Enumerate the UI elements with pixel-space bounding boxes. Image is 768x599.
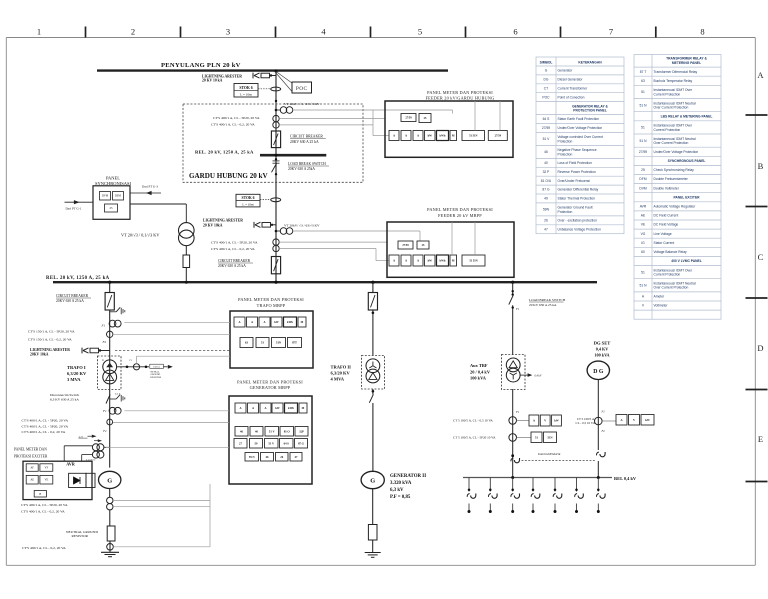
svg-text:Over Current Protection: Over Current Protection [654, 106, 689, 110]
svg-text:Over/Under Frekuensi: Over/Under Frekuensi [558, 179, 591, 183]
svg-text:VT 20kV/ √3 / 63/√3 KV: VT 20kV/ √3 / 63/√3 KV [284, 102, 320, 106]
svg-text:B: B [758, 161, 764, 171]
svg-text:A: A [417, 135, 419, 138]
svg-text:KETERANGAN: KETERANGAN [578, 61, 602, 65]
svg-text:G: G [107, 478, 112, 485]
svg-text:PROTEKSI EXCITER: PROTEKSI EXCITER [14, 454, 48, 458]
svg-text:46: 46 [544, 150, 548, 154]
svg-text:4,3 I: 4,3 I [79, 435, 84, 438]
svg-text:M: M [301, 321, 304, 324]
svg-text:TRANSFORMER RELAY &: TRANSFORMER RELAY & [666, 57, 707, 61]
svg-text:METERING PANEL: METERING PANEL [672, 61, 701, 65]
svg-text:VF: VF [45, 467, 49, 470]
svg-text:PANEL EXCITER: PANEL EXCITER [673, 195, 700, 199]
svg-text:27/59: 27/59 [495, 135, 502, 138]
svg-text:Current Protection: Current Protection [654, 128, 681, 132]
svg-text:6,3 kV: 6,3 kV [390, 488, 404, 493]
svg-text:SIMBOL: SIMBOL [540, 61, 553, 65]
svg-text:FEEDER 20 kV MBPP: FEEDER 20 kV MBPP [438, 213, 482, 218]
svg-text:3: 3 [226, 27, 230, 37]
svg-text:kW: kW [554, 419, 559, 423]
svg-text:20KV 630 A 25 kA: 20KV 630 A 25 kA [290, 140, 319, 144]
svg-text:REL. 20 kV, 1250 A, 25 kA: REL. 20 kV, 1250 A, 25 kA [46, 276, 110, 281]
svg-text:32 P: 32 P [543, 170, 551, 174]
svg-text:1: 1 [37, 27, 41, 37]
svg-text:AVR: AVR [640, 205, 647, 209]
svg-text:Unbalance Voltage Protection: Unbalance Voltage Protection [558, 227, 602, 231]
svg-text:A: A [757, 70, 764, 80]
svg-text:G: G [545, 69, 548, 73]
svg-text:InterlockElektrik: InterlockElektrik [537, 452, 561, 456]
svg-text:POC: POC [542, 95, 550, 99]
svg-text:27/59: 27/59 [542, 126, 550, 130]
svg-text:Over Current Protection: Over Current Protection [654, 141, 689, 145]
svg-text:TRAFO II: TRAFO II [331, 365, 352, 370]
svg-text:Current Protection: Current Protection [654, 273, 681, 277]
svg-text:CIRCUIT BREAKER: CIRCUIT BREAKER [290, 135, 323, 139]
svg-text:CT: CT [544, 86, 548, 90]
svg-text:6: 6 [513, 27, 517, 37]
svg-text:7: 7 [609, 27, 613, 37]
svg-text:Aux TRF: Aux TRF [470, 363, 488, 368]
svg-text:Voltage Balance Relay: Voltage Balance Relay [654, 250, 688, 254]
svg-text:AF: AF [30, 467, 34, 470]
svg-text:kW: kW [275, 407, 280, 410]
svg-text:PANEL METER DAN PROTEKSI: PANEL METER DAN PROTEKSI [237, 380, 303, 385]
svg-text:6,3/20 KV: 6,3/20 KV [331, 371, 351, 376]
svg-text:Generator: Generator [558, 69, 574, 73]
svg-text:51: 51 [641, 90, 645, 94]
svg-text:400 V LVMC PANEL: 400 V LVMC PANEL [671, 259, 701, 263]
svg-text:Current Transformer: Current Transformer [558, 86, 589, 90]
svg-text:DFM: DFM [639, 177, 646, 181]
svg-text:5: 5 [418, 27, 422, 37]
svg-text:REL. 20 kV, 1250 A, 25 kA: REL. 20 kV, 1250 A, 25 kA [195, 149, 254, 154]
svg-text:64 S: 64 S [543, 117, 551, 121]
svg-text:51 V: 51 V [543, 137, 551, 141]
svg-text:Generator Differential Relay: Generator Differential Relay [558, 188, 599, 192]
svg-text:Over - excitation protection: Over - excitation protection [558, 219, 598, 223]
svg-text:Ameter: Ameter [654, 295, 666, 299]
svg-text:20KV 630 A 25 kA: 20KV 630 A 25 kA [56, 299, 84, 303]
svg-text:59 N: 59 N [249, 455, 256, 459]
svg-text:IG: IG [641, 241, 645, 245]
svg-text:SYNCHRONOUS PANEL: SYNCHRONOUS PANEL [668, 159, 706, 163]
svg-text:20KV 10kA: 20KV 10kA [30, 352, 49, 356]
svg-text:kW: kW [428, 260, 433, 263]
svg-text:CIRCUIT BREAKER: CIRCUIT BREAKER [56, 294, 89, 298]
svg-text:6,3 T: 6,3 T [115, 392, 121, 395]
svg-text:GENERATOR MBPP: GENERATOR MBPP [250, 385, 291, 390]
svg-text:20 / 0,4 kV: 20 / 0,4 kV [470, 369, 491, 374]
svg-text:20KV 630 A 25 kA: 20KV 630 A 25 kA [218, 264, 246, 268]
svg-text:A: A [251, 321, 253, 324]
svg-text:M: M [452, 260, 455, 263]
svg-text:60: 60 [641, 250, 645, 254]
svg-text:F2: F2 [102, 429, 107, 433]
svg-text:F1: F1 [601, 409, 606, 413]
svg-text:Voltmeter: Voltmeter [654, 304, 669, 308]
svg-text:Under/Over Voltage Protection: Under/Over Voltage Protection [558, 126, 603, 130]
svg-text:Stator Thermal Protection: Stator Thermal Protection [558, 197, 596, 201]
svg-text:20KV 630 A 25kA: 20KV 630 A 25kA [288, 167, 315, 171]
svg-text:GROUND: GROUND [150, 374, 160, 376]
svg-text:20 KV 10 kA: 20 KV 10 kA [202, 79, 223, 83]
svg-text:87T: 87T [292, 341, 297, 345]
svg-text:DG: DG [544, 78, 549, 82]
svg-text:F1: F1 [102, 409, 107, 413]
svg-text:LOAD BREAK SWITCH: LOAD BREAK SWITCH [288, 162, 326, 166]
svg-text:PANEL METER DAN PROTEKSI: PANEL METER DAN PROTEKSI [427, 90, 493, 95]
svg-text:L = 10m: L = 10m [242, 202, 254, 206]
svg-text:L = 10m: L = 10m [240, 92, 252, 96]
svg-text:A: A [238, 321, 240, 324]
svg-text:DVM: DVM [639, 186, 647, 190]
svg-text:Disconnectin Switch: Disconnectin Switch [50, 393, 79, 397]
svg-text:F2: F2 [102, 340, 107, 344]
svg-text:C: C [758, 252, 764, 262]
svg-text:kW: kW [428, 135, 433, 138]
svg-text:kWh: kWh [440, 260, 446, 263]
svg-text:Protection: Protection [558, 210, 573, 214]
svg-text:20 KV 10kA: 20 KV 10kA [203, 223, 223, 227]
svg-text:B: B [39, 493, 41, 496]
svg-text:81 O/U: 81 O/U [541, 179, 552, 183]
svg-text:F2: F2 [601, 429, 606, 433]
svg-text:Point of Conection: Point of Conection [558, 95, 585, 99]
svg-text:51 N: 51 N [640, 139, 648, 143]
svg-text:Stator Current: Stator Current [654, 241, 675, 245]
svg-text:2: 2 [131, 27, 135, 37]
svg-text:DFM: DFM [115, 195, 121, 198]
svg-text:32P: 32P [299, 429, 304, 433]
svg-text:LOAD BREAK SWITCH: LOAD BREAK SWITCH [529, 298, 566, 302]
svg-text:Over Current Protection: Over Current Protection [654, 286, 689, 290]
svg-text:kWh: kWh [287, 321, 293, 324]
svg-text:NETRAL: NETRAL [150, 370, 160, 373]
svg-text:PROTECTION PANEL: PROTECTION PANEL [573, 109, 606, 113]
svg-text:AE: AE [30, 479, 34, 482]
svg-text:27/59: 27/59 [402, 244, 409, 247]
svg-text:Automatic Voltage Regulator: Automatic Voltage Regulator [654, 205, 697, 209]
svg-text:G: G [370, 477, 375, 484]
svg-text:Loss of Field Protection: Loss of Field Protection [558, 161, 593, 165]
svg-text:A: A [417, 260, 419, 263]
svg-text:A: A [405, 135, 407, 138]
svg-text:100 kVA: 100 kVA [594, 352, 609, 357]
svg-text:51 N: 51 N [640, 283, 648, 287]
svg-text:DC Field Current: DC Field Current [654, 214, 679, 218]
svg-text:20 KV 630 A 25 kA: 20 KV 630 A 25 kA [529, 303, 557, 307]
svg-text:64 S: 64 S [284, 441, 290, 445]
svg-text:Dari PT G-1: Dari PT G-1 [66, 206, 82, 210]
svg-text:47: 47 [544, 227, 548, 231]
svg-text:3 MVA: 3 MVA [67, 377, 81, 382]
svg-text:SYNCHRONISASI: SYNCHRONISASI [95, 181, 132, 186]
svg-text:PANEL METER DAN PROTEKSI: PANEL METER DAN PROTEKSI [427, 207, 493, 212]
svg-text:RESISTOR: RESISTOR [72, 534, 89, 538]
svg-text:Protection: Protection [558, 152, 573, 156]
svg-text:F1: F1 [101, 323, 106, 327]
svg-text:LIGHTNING ARESTER: LIGHTNING ARESTER [203, 219, 243, 223]
svg-text:6,3/20 KV: 6,3/20 KV [67, 371, 87, 376]
svg-text:GENERATOR II: GENERATOR II [390, 474, 426, 479]
svg-text:Under/Over Voltage Protection: Under/Over Voltage Protection [654, 150, 699, 154]
svg-text:M: M [302, 407, 305, 410]
svg-text:0,4 kV: 0,4 kV [535, 375, 542, 378]
svg-text:27/59: 27/59 [405, 117, 412, 120]
svg-text:51 V: 51 V [269, 429, 276, 433]
svg-text:DG SET: DG SET [594, 341, 611, 346]
svg-text:8: 8 [700, 27, 704, 37]
svg-text:CIRCUIT BREAKER: CIRCUIT BREAKER [218, 259, 251, 263]
svg-text:Double Frekuensimeter: Double Frekuensimeter [654, 177, 689, 181]
svg-text:A: A [264, 407, 266, 410]
svg-text:PANEL METER DAN: PANEL METER DAN [14, 448, 47, 452]
svg-text:51: 51 [641, 270, 645, 274]
svg-text:STOK 6: STOK 6 [239, 86, 252, 90]
svg-text:87 T: 87 T [640, 70, 647, 74]
svg-text:REL 0,4 kV: REL 0,4 kV [614, 476, 637, 481]
svg-text:Bucholz Temperatur Relay: Bucholz Temperatur Relay [654, 79, 693, 83]
svg-text:TRAFO I: TRAFO I [67, 365, 86, 370]
svg-text:25: 25 [641, 168, 645, 172]
svg-text:DVM: DVM [102, 195, 109, 198]
svg-text:63: 63 [641, 79, 645, 83]
svg-text:27/59: 27/59 [639, 150, 647, 154]
svg-text:51 51N: 51 51N [469, 135, 477, 138]
svg-text:GARDU HUBUNG 20 kV: GARDU HUBUNG 20 kV [189, 172, 269, 180]
svg-text:51 N: 51 N [640, 103, 648, 107]
svg-text:59N: 59N [543, 208, 550, 212]
svg-text:VG: VG [641, 232, 646, 236]
svg-text:E: E [758, 434, 763, 444]
svg-text:A: A [393, 260, 395, 263]
svg-text:RESISTOR: RESISTOR [150, 377, 161, 379]
svg-text:Stator Earth Fault Protection: Stator Earth Fault Protection [558, 117, 600, 121]
svg-text:POC: POC [296, 86, 308, 92]
svg-text:87 G: 87 G [298, 441, 305, 445]
svg-text:AVR: AVR [66, 461, 76, 466]
svg-text:3.320 kVA: 3.320 kVA [390, 481, 412, 486]
svg-text:87 G: 87 G [542, 188, 550, 192]
svg-text:49: 49 [544, 197, 548, 201]
svg-text:P.F = 0,85: P.F = 0,85 [390, 495, 411, 500]
svg-text:A: A [252, 407, 254, 410]
svg-text:A: A [405, 260, 407, 263]
svg-text:A: A [239, 407, 241, 410]
svg-text:VE: VE [44, 479, 48, 482]
svg-text:kW: kW [274, 321, 279, 324]
svg-text:A: A [263, 321, 265, 324]
svg-text:kWh: kWh [288, 407, 294, 410]
svg-text:26: 26 [544, 219, 548, 223]
svg-text:Reverse Power Protection: Reverse Power Protection [558, 170, 596, 174]
svg-text:LIGHTNING ARESTER: LIGHTNING ARESTER [30, 348, 70, 352]
svg-text:kW: kW [645, 418, 650, 422]
svg-text:LBS RELAY & METERING PANEL: LBS RELAY & METERING PANEL [661, 114, 713, 118]
svg-text:Double Voltmeter: Double Voltmeter [654, 186, 680, 190]
svg-text:Check Synchronizing Relay: Check Synchronizing Relay [654, 168, 695, 172]
svg-text:VT 20kV/ √3 / 63/√3 KV: VT 20kV/ √3 / 63/√3 KV [284, 224, 320, 228]
svg-text:100 kVA: 100 kVA [470, 376, 487, 381]
svg-text:D: D [757, 343, 763, 353]
svg-text:81 O: 81 O [284, 429, 291, 433]
svg-text:FEEDER 20 kV/GARDU HUBUNG: FEEDER 20 kV/GARDU HUBUNG [426, 95, 495, 100]
svg-text:Current Protection: Current Protection [654, 92, 681, 96]
svg-text:51 V: 51 V [268, 441, 275, 445]
svg-text:51: 51 [641, 126, 645, 130]
svg-text:TRAFO MBPP: TRAFO MBPP [257, 303, 286, 308]
svg-text:Diesel Generator: Diesel Generator [558, 78, 584, 82]
svg-text:Dari PT G-3: Dari PT G-3 [142, 185, 158, 189]
svg-text:Transformer Diferencial Relay: Transformer Diferencial Relay [654, 70, 698, 74]
svg-text:DC Field Voltage: DC Field Voltage [654, 223, 679, 227]
svg-text:STOK 6: STOK 6 [242, 196, 255, 200]
svg-text:40: 40 [544, 161, 548, 165]
svg-text:kWh: kWh [440, 135, 446, 138]
svg-text:Protection: Protection [558, 139, 573, 143]
svg-text:A: A [393, 135, 395, 138]
svg-text:F1: F1 [515, 410, 520, 414]
svg-text:F1: F1 [515, 307, 520, 311]
svg-text:150/5A: 150/5A [153, 366, 160, 369]
svg-text:D G: D G [593, 369, 604, 375]
svg-text:0,4 KV: 0,4 KV [596, 347, 609, 352]
svg-text:M: M [452, 135, 455, 138]
svg-text:51 51N: 51 51N [469, 260, 477, 263]
svg-text:4 MVA: 4 MVA [331, 376, 345, 381]
svg-text:PENYULANG PLN 20 kV: PENYULANG PLN 20 kV [161, 62, 241, 69]
svg-text:Line Voltage: Line Voltage [654, 232, 672, 236]
svg-text:PANEL METER DAN PROTEKSI: PANEL METER DAN PROTEKSI [238, 297, 304, 302]
